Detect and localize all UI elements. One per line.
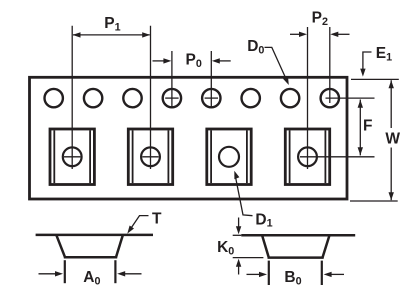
D0 leader arrowhead — [283, 77, 289, 85]
P1 left arrowhead — [73, 32, 81, 37]
W top arrowhead — [389, 80, 394, 88]
pocket 2 right wall line — [167, 130, 169, 183]
B0 left arrow — [247, 273, 261, 275]
pocket 3 right wall line — [246, 130, 248, 183]
T leader line — [130, 216, 149, 231]
W dimension line upper part — [390, 80, 392, 128]
P1 right arrowhead — [142, 32, 150, 37]
sprocket hole 6 — [242, 89, 260, 107]
section B: pocket trapezoid right side — [323, 235, 330, 257]
B0 left extension line — [268, 261, 270, 285]
sprocket hole 4 — [163, 89, 181, 107]
section A: pocket trapezoid bottom — [64, 256, 117, 259]
sprocket hole 1 — [45, 89, 63, 107]
sprocket hole 2 — [84, 89, 102, 107]
pocket 4 outer rectangle — [285, 129, 329, 185]
pocket 2 crosshair bar — [142, 156, 158, 158]
section B: pocket trapezoid left side — [262, 235, 269, 257]
P2 left arrow — [290, 33, 301, 35]
B0 right extension line — [321, 261, 323, 285]
P2 right extension line (sprocket 8 centerline) — [329, 27, 331, 103]
pocket 3 component circle (D1 hole) — [219, 147, 239, 167]
W dimension line lower part — [390, 148, 392, 201]
sprocket hole 7 — [281, 89, 299, 107]
K0 bottom arrow — [238, 265, 240, 275]
section B: tape surface line — [241, 234, 355, 237]
pocket 3 left wall line — [210, 130, 212, 183]
K0 bottom extension line — [233, 257, 264, 259]
F dimension line — [359, 100, 361, 156]
D1 leader line — [235, 175, 252, 216]
section A: pocket trapezoid right side — [116, 235, 123, 257]
F top arrowhead — [358, 100, 363, 108]
A0 right arrow — [124, 273, 142, 275]
D0 leader line — [265, 47, 288, 81]
svg-text:W: W — [385, 130, 400, 147]
E1 arrowhead (down to tape edge) — [360, 69, 365, 77]
F bottom arrowhead — [358, 147, 363, 155]
pocket 1 crosshair bar — [64, 156, 80, 158]
svg-text:T: T — [152, 210, 162, 227]
P1 left extension line (pocket 1 centerline) — [71, 26, 73, 169]
W bottom extension line — [350, 200, 398, 202]
D1 leader arrowhead — [234, 171, 239, 180]
pocket 1 component circle — [63, 147, 82, 166]
K0 top extension line — [233, 234, 242, 236]
W bottom arrowhead — [389, 192, 394, 200]
pocket 2 outer rectangle — [128, 129, 172, 185]
sprocket hole 3 — [123, 89, 141, 107]
A0 right extension line — [114, 260, 116, 283]
B0 right arrow — [331, 273, 345, 275]
sprocket hole 4 crosshair bar — [165, 97, 178, 99]
section A: pocket trapezoid left side — [56, 235, 65, 257]
pocket 3 outer rectangle — [207, 129, 251, 185]
T leader arrowhead — [127, 226, 134, 234]
sprocket hole 5 — [202, 89, 220, 107]
pocket 4 component circle — [298, 147, 317, 166]
pocket 1 left wall line — [53, 130, 55, 183]
P2 right arrow — [337, 33, 350, 35]
pocket 2 component circle — [141, 147, 160, 166]
P0 left extension line (sprocket 4 centerline) — [171, 51, 173, 108]
P1 right extension line (pocket 2 centerline) — [150, 26, 152, 169]
pocket 2 left wall line — [132, 130, 134, 183]
A0 left arrow — [39, 273, 57, 275]
carrier tape body — [30, 77, 348, 199]
sprocket hole 8 — [321, 89, 339, 107]
P2 left extension line (pocket 4 centerline) — [307, 27, 309, 169]
sprocket row centerline extension (F top) — [326, 97, 375, 99]
A0 left extension line — [64, 260, 66, 283]
section B: pocket trapezoid bottom — [268, 256, 324, 259]
E1 leader bracket — [363, 52, 372, 72]
sprocket hole 5 crosshair bar — [205, 97, 218, 99]
pocket 1 outer rectangle — [50, 129, 94, 185]
K0 top arrow — [238, 218, 240, 229]
pocket 4 right wall line — [324, 130, 326, 183]
P0 right extension line (sprocket 5 centerline) — [210, 51, 212, 108]
P0 left arrow — [153, 60, 165, 62]
pocket 4 centerline extension (F bottom) — [300, 156, 375, 158]
P0 right arrow — [219, 60, 231, 62]
P1 dimension line — [73, 34, 150, 36]
section A: tape surface line — [36, 234, 153, 237]
pocket 1 right wall line — [89, 130, 91, 183]
W top extension line — [351, 78, 399, 80]
svg-text:F: F — [363, 117, 372, 134]
pocket 4 left wall line — [289, 130, 291, 183]
